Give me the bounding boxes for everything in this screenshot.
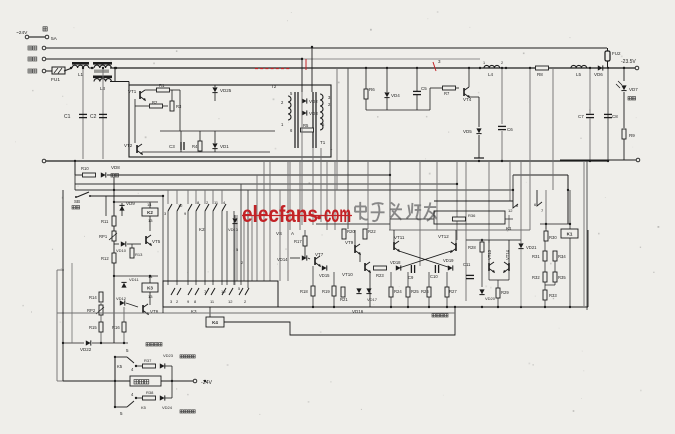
wire VT14 down: [508, 271, 510, 280]
svg-text:C9: C9: [408, 275, 414, 280]
label SB function (Chinese): [72, 206, 80, 209]
wire down to R10 row: [74, 161, 76, 175]
junction: [74, 160, 76, 162]
svg-text:FU2: FU2: [612, 51, 621, 56]
svg-text:R26: R26: [421, 289, 429, 294]
svg-text:R4: R4: [192, 144, 198, 149]
resistor R7: [443, 86, 456, 90]
label rail-3 (Chinese): [28, 69, 37, 73]
wire into K2: [149, 202, 151, 208]
wire K1 drop: [512, 190, 514, 201]
svg-text:R14: R14: [89, 295, 97, 300]
resistor R19: [332, 286, 336, 296]
wire choke right vertical: [114, 68, 116, 82]
label fuse char: [43, 27, 47, 31]
svg-text:RP1: RP1: [99, 234, 108, 239]
wire column x=337: [336, 68, 338, 190]
diode VD20: [479, 289, 484, 294]
diode VD4: [384, 92, 389, 97]
svg-text:FU1: FU1: [51, 77, 60, 83]
svg-text:VT13: VT13: [487, 249, 492, 260]
wire vertical drop x=510: [509, 161, 511, 201]
junction: [135, 365, 137, 367]
svg-text:VD19: VD19: [443, 258, 454, 263]
svg-text:R11: R11: [101, 219, 109, 224]
junction: [569, 223, 571, 225]
svg-text:VD2: VD2: [309, 99, 318, 104]
wire vertical drop x=327: [326, 161, 328, 230]
wire vertical drop x=546: [545, 190, 547, 229]
wire to FU1: [46, 70, 52, 72]
junction: [91, 67, 93, 69]
wire K3 to VT6: [149, 292, 151, 305]
svg-text:2: 2: [501, 61, 503, 65]
wire C6 column: [501, 68, 503, 124]
wire VD25 bottom: [214, 93, 216, 101]
label VD23 route (Chinese): [180, 355, 195, 358]
svg-text:C2: C2: [90, 114, 97, 120]
junction: [567, 189, 569, 191]
wire R6 top: [365, 68, 367, 89]
wire rail drop join: [57, 380, 63, 382]
relay coil K1: [561, 229, 578, 238]
relay coil box with R36: [434, 211, 505, 224]
switch SB: [77, 192, 89, 197]
relay coil K2: [142, 208, 158, 216]
capacitor C10: [434, 265, 436, 273]
junction: [478, 160, 480, 162]
resistor R9: [622, 129, 626, 139]
junction: [386, 67, 388, 69]
svg-text:VD12: VD12: [116, 296, 127, 301]
terminal -24V: [193, 379, 197, 383]
resistor R4: [198, 141, 202, 151]
junction: [301, 58, 303, 60]
junction: [333, 306, 335, 308]
junction: [481, 239, 483, 241]
junction: [114, 380, 116, 382]
junction: [114, 406, 116, 408]
svg-text:VD4: VD4: [391, 93, 400, 98]
svg-text:com: com: [324, 201, 351, 227]
junction: [113, 275, 115, 277]
wire SB to right: [90, 195, 163, 197]
wire vertical drop x=290: [289, 161, 291, 230]
resistor R15: [99, 322, 103, 332]
label rail-1 (Chinese): [28, 46, 37, 50]
wire join: [545, 284, 555, 286]
wire K1 row: [540, 223, 570, 225]
junction: [569, 306, 571, 308]
capacitor C9: [410, 265, 412, 273]
junction: [545, 223, 547, 225]
wire box to K1: [505, 218, 513, 220]
svg-text:C11: C11: [463, 262, 471, 267]
wire vertical drop x=313: [312, 148, 314, 225]
wire R17 to VD14 node: [304, 246, 306, 258]
svg-text:K5: K5: [117, 364, 123, 369]
wire to R36 box: [390, 218, 434, 220]
choke middle blob: [94, 70, 109, 73]
svg-text:R2: R2: [152, 100, 158, 105]
svg-text:A: A: [291, 231, 294, 236]
wire to output terminal: [626, 67, 635, 69]
wire vertical drop x=553: [552, 68, 554, 190]
resistor R8: [536, 66, 549, 70]
wire L1 to choke: [89, 67, 94, 69]
junction: [204, 380, 206, 382]
svg-text:VD14: VD14: [277, 257, 288, 262]
label horn (Chinese): [134, 380, 149, 384]
capacitor C6: [498, 125, 506, 127]
resistor R37: [143, 364, 156, 368]
wire left column x=114: [113, 177, 115, 281]
svg-text:VT7: VT7: [315, 252, 324, 257]
wire ground rail y=161: [46, 160, 608, 162]
potentiometer RP2: [99, 305, 103, 315]
transistor VT5: [146, 235, 151, 245]
wire vertical drop x=509: [508, 215, 510, 230]
wire step x=513: [512, 175, 514, 190]
terminal rail-2: [42, 57, 46, 61]
wire R32-R33: [544, 282, 546, 290]
svg-text:R35: R35: [558, 275, 566, 280]
wire C2 column: [102, 68, 104, 159]
wire C7 column bottom: [589, 118, 591, 161]
svg-text:K3: K3: [147, 285, 153, 290]
transformer core line 4: [315, 92, 317, 148]
wire to resistor x=429: [428, 272, 430, 287]
wire vertical drop x=570: [569, 190, 571, 307]
diode VD9: [119, 206, 124, 211]
wire R13 top: [131, 244, 133, 248]
wire emitter join: [489, 279, 509, 281]
junction: [62, 342, 64, 344]
red scan mark 3: [433, 62, 436, 71]
svg-text:12: 12: [508, 208, 513, 213]
junction: [520, 306, 522, 308]
svg-text:R21: R21: [340, 297, 348, 302]
junction: [70, 67, 72, 69]
wire VD24 right: [165, 397, 172, 399]
label VD24 route (Chinese): [180, 410, 195, 413]
wire vertical drop x=466: [465, 161, 467, 301]
wire K5 bottom: [115, 406, 127, 408]
terminal after fuse: [45, 35, 49, 39]
svg-text:L5: L5: [576, 72, 582, 77]
wire rail-1 corner to FU2: [607, 48, 609, 51]
wire row y=175 right: [513, 174, 568, 176]
svg-text:R23: R23: [376, 273, 384, 278]
junction: [428, 306, 430, 308]
resistor R32: [543, 272, 547, 282]
diode VD24: [160, 395, 165, 400]
svg-text:R9: R9: [629, 133, 635, 138]
svg-text:VD23: VD23: [163, 353, 174, 358]
svg-text:1: 1: [483, 61, 485, 65]
wire vertical drop x=390: [389, 161, 391, 230]
wire vertical drop x=530: [529, 68, 531, 161]
wire K2 top link: [114, 201, 158, 203]
watermark Chinese calligraphy (drawn strokes): [355, 202, 437, 221]
transistor VT9: [355, 244, 360, 254]
wire R15 down: [100, 332, 102, 343]
wire R34-R35: [554, 261, 556, 272]
wire VT13 collector: [488, 240, 490, 263]
wire into converter box: [128, 82, 130, 86]
red scan dashes: [255, 68, 291, 70]
wire column x=72: [71, 263, 73, 343]
wire VD13 top: [234, 215, 236, 218]
wire vertical drop x=168: [167, 211, 169, 285]
wire R4 top: [199, 131, 201, 141]
wire resistor to rail x=408: [407, 297, 409, 307]
capacitor C5: [413, 90, 421, 92]
resistor R10: [83, 173, 96, 177]
wire VD7 to R9: [623, 92, 625, 128]
wire R2-R3: [163, 105, 168, 107]
LED VD7: [621, 85, 626, 90]
svg-text:R6: R6: [369, 87, 375, 92]
resistor R20: [342, 229, 346, 239]
wire R28 to VD20: [481, 252, 483, 287]
svg-text:R19: R19: [322, 289, 330, 294]
terminal rail-3: [42, 69, 46, 73]
terminal -23.5V output: [635, 66, 639, 70]
svg-text:K2: K2: [199, 227, 205, 232]
wire VD9 leads: [121, 203, 123, 216]
resistor R28: [480, 242, 484, 252]
wire vertical drop x=237: [236, 215, 238, 281]
svg-text:13: 13: [148, 294, 153, 299]
wire R7 to VT4: [456, 87, 459, 89]
wire row y=110: [366, 109, 430, 111]
junction: [113, 201, 115, 203]
svg-text:VD13: VD13: [228, 227, 239, 232]
relay K3 contacts: [171, 288, 175, 295]
svg-text:VD16: VD16: [352, 309, 364, 314]
inductor L5: [571, 65, 587, 68]
resistor R18: [311, 286, 315, 296]
junction: [407, 306, 409, 308]
junction: [135, 397, 137, 399]
wire vertical drop x=163: [162, 196, 164, 281]
svg-text:VD11: VD11: [129, 277, 139, 282]
resistor R25: [406, 287, 410, 297]
svg-text:VD20: VD20: [485, 296, 496, 301]
wire vertical drop x=521: [520, 161, 522, 243]
junction: [149, 275, 151, 277]
wire vertical drop x=264: [263, 161, 265, 281]
wire bottom rail y=313: [57, 312, 455, 314]
junction: [114, 356, 116, 358]
wire to R10: [75, 174, 82, 176]
wire VT11 collector: [393, 230, 395, 242]
wire VT4 collector up: [468, 68, 470, 87]
svg-text:R24: R24: [394, 289, 402, 294]
potentiometer RP1: [112, 231, 116, 241]
wire to horn box: [63, 380, 130, 382]
svg-text:VD1: VD1: [220, 144, 229, 149]
junction: [114, 67, 116, 69]
transformer core line 3: [312, 92, 314, 148]
wire up to R7: [429, 88, 431, 110]
diode VD8: [101, 172, 106, 177]
inductor L3 core bar: [93, 76, 112, 79]
wire VT10 emitter down: [369, 272, 371, 307]
diode VD10: [121, 241, 126, 246]
svg-text:VD18: VD18: [390, 260, 401, 265]
junction: [529, 67, 531, 69]
transistor VT12: [451, 242, 456, 252]
wire 24V link: [29, 36, 45, 38]
wire VT14 collector: [508, 240, 510, 263]
diode VD25: [212, 87, 217, 92]
wire column x=348: [347, 68, 349, 190]
wire vertical drop x=227: [226, 211, 228, 285]
wire bottom output rail: [560, 159, 636, 161]
wire to resistor x=391: [390, 272, 392, 287]
svg-text:R28: R28: [468, 245, 476, 250]
zener VD16: [356, 288, 361, 293]
wire to R29: [497, 280, 499, 288]
converter circuit box: [129, 85, 331, 157]
wire row y=184: [75, 183, 457, 185]
capacitor C3: [180, 142, 182, 150]
wire R6 bottom: [365, 99, 367, 110]
transistor VT2: [137, 144, 142, 154]
wire K5 top: [115, 356, 127, 358]
wire R9 down: [623, 139, 625, 160]
terminal output return: [636, 158, 640, 162]
junction: [607, 160, 609, 162]
transformer core line 2: [297, 92, 299, 148]
wire vertical drop x=270: [269, 161, 271, 281]
resistor R3: [170, 101, 174, 111]
junction: [501, 67, 503, 69]
wire R1 right: [170, 89, 180, 91]
svg-text:VD8: VD8: [111, 165, 120, 170]
svg-text:R30: R30: [549, 235, 557, 240]
svg-text:R15: R15: [89, 325, 97, 330]
wire to VD22: [63, 342, 84, 344]
wire main top rail y=68: [110, 67, 637, 69]
transformer T1 winding left: [288, 96, 291, 120]
wire VD5 column top: [478, 97, 480, 127]
svg-text:R5: R5: [303, 123, 309, 128]
junction: [162, 195, 164, 197]
inductor L2 core bar: [93, 62, 112, 65]
svg-text:R7: R7: [444, 91, 450, 96]
svg-text:-23.5V: -23.5V: [621, 59, 636, 65]
svg-text:10: 10: [221, 289, 226, 294]
svg-text:12: 12: [228, 299, 233, 304]
resistor R33: [543, 290, 547, 300]
resistor R2: [150, 104, 163, 108]
svg-text:VD21: VD21: [526, 245, 537, 250]
resistor R29: [496, 288, 500, 298]
svg-text:VD10: VD10: [116, 248, 127, 253]
wire resistor to rail x=391: [390, 297, 392, 307]
wire vertical drop x=248: [247, 190, 249, 288]
wire rail-1 into transformer: [311, 47, 313, 92]
svg-text:K4: K4: [212, 320, 218, 325]
zener VD21: [518, 243, 523, 248]
inductor L4: [484, 65, 500, 68]
junction: [100, 342, 102, 344]
svg-text:VT9: VT9: [345, 240, 354, 245]
caption charging circuit (Chinese): [432, 314, 448, 317]
junction: [479, 67, 481, 69]
transistor VT1: [140, 90, 145, 100]
wire vertical drop x=437: [436, 161, 438, 230]
wire R18 down: [312, 296, 314, 307]
junction: [364, 229, 366, 231]
resistor R12: [112, 253, 116, 263]
wire to resistor x=408: [407, 272, 409, 287]
wire bottom rail y=307: [163, 306, 588, 308]
resistor R1: [157, 88, 170, 92]
wire rail-2 into transformer: [301, 59, 303, 92]
wire VD14 to VT7: [308, 258, 310, 259]
wire mid y=131: [160, 130, 275, 132]
svg-text:12: 12: [178, 203, 183, 208]
svg-text:R25: R25: [411, 289, 419, 294]
svg-text:R3: R3: [176, 104, 182, 109]
wire bus rail-2 y=59: [46, 58, 302, 60]
wire VT9 collector: [354, 230, 356, 245]
wire R30-R31: [544, 241, 546, 251]
wire left column lower: [113, 281, 115, 343]
wire vertical drop x=457: [456, 161, 458, 240]
wire RP2 to R15: [100, 315, 102, 322]
junction: [589, 160, 591, 162]
wire resistor to rail x=429: [428, 297, 430, 307]
junction: [115, 67, 117, 69]
wire bus rail-1 y=48: [46, 47, 607, 49]
wire down to -24V line: [171, 366, 173, 381]
relay K4: [206, 317, 224, 327]
label VD8 function (Chinese): [111, 174, 119, 177]
diode VD23: [160, 363, 165, 368]
horn box: [130, 376, 161, 386]
svg-text:VD24: VD24: [162, 405, 173, 410]
inductor L3 (choke bottom): [94, 79, 111, 82]
capacitor C8: [604, 113, 612, 115]
svg-text:R18: R18: [300, 289, 308, 294]
junction: [497, 306, 499, 308]
wire R19 down: [333, 296, 335, 307]
relay K3 contact box: [163, 281, 278, 307]
wire VD25 top: [214, 85, 216, 87]
svg-text:elecfans: elecfans: [242, 201, 318, 227]
wire segment y=224: [316, 223, 390, 225]
wire SB drop: [105, 196, 107, 216]
svg-text:K5: K5: [141, 405, 147, 410]
wire C5 top: [416, 68, 418, 91]
junction: [481, 306, 483, 308]
svg-text:C1: C1: [64, 114, 71, 120]
svg-text:T1: T1: [320, 140, 326, 145]
wire vertical drop x=241: [240, 184, 242, 285]
wire vertical drop x=280: [279, 190, 281, 281]
diode VD11: [121, 283, 126, 288]
junction: [623, 67, 625, 69]
wire left bracket x=57: [56, 270, 58, 381]
capacitor C1: [79, 113, 87, 115]
svg-text:13: 13: [148, 218, 153, 223]
svg-text:VD5: VD5: [463, 129, 472, 134]
